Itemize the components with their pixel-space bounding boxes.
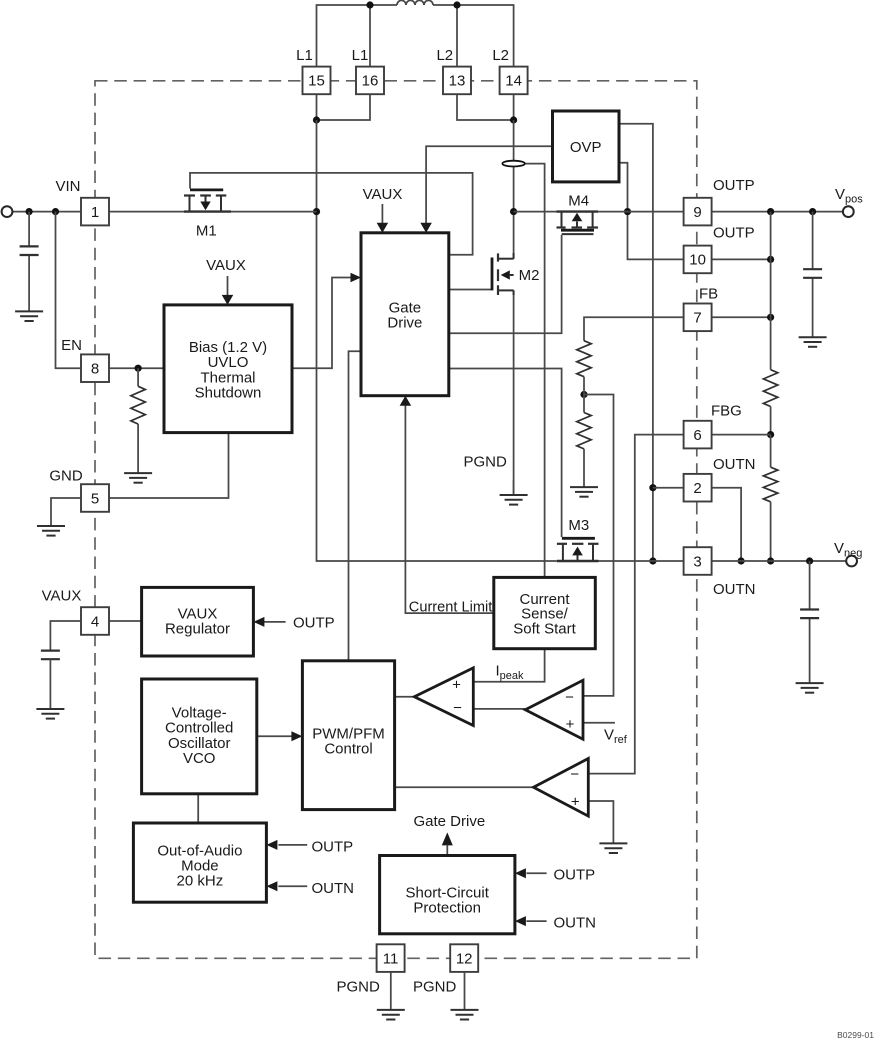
node - L2 node / OUTP row junction [510, 208, 517, 215]
transistor M4 (source/drain leads) [557, 212, 599, 228]
svg-text:Control: Control [324, 741, 372, 758]
svg-text:PGND: PGND [464, 453, 508, 470]
ground - EN resistor ground [124, 473, 152, 483]
wire - pin 16 bottom jog to L1 node [317, 94, 371, 120]
svg-text:4: 4 [91, 613, 99, 630]
wire - pin 14 bottom to L2 node [513, 94, 515, 120]
comparator U1 (current limit) [414, 668, 473, 726]
wire - comparator U3 output to PWM/PFM [395, 786, 534, 788]
svg-text:OUTN: OUTN [312, 880, 355, 897]
wire - pin 2 right jog down to OUTN row [712, 488, 742, 561]
svg-text:OUTN: OUTN [713, 456, 756, 473]
label OUTN (pin 2) [713, 456, 756, 473]
arrow - Gate Drive signal up [442, 832, 453, 845]
wire - input terminal to pin 1 (VIN) [12, 211, 81, 213]
wire - FBG to lower external resistor [770, 435, 772, 468]
wire - Vneg cap leads [809, 561, 811, 683]
svg-text:OVP: OVP [570, 139, 602, 156]
terminal - Vneg output [846, 556, 857, 567]
wire - EN resistor top lead [137, 368, 139, 386]
svg-text:Soft Start: Soft Start [513, 620, 576, 637]
wire - pin 12 to ground [464, 973, 466, 1010]
transistor M3 (source/drain leads) [557, 544, 599, 561]
node - OUTN/cap junction [806, 557, 813, 564]
wire - FB to upper external resistor [770, 317, 772, 369]
wire - OUTP stub into VAUX regulator [264, 621, 286, 623]
svg-text:Drive: Drive [387, 315, 422, 332]
svg-text:15: 15 [308, 73, 325, 90]
node - OUTN/vertical junction [767, 557, 774, 564]
capacitor - VAUX bypass cap [41, 651, 60, 660]
pin 11 (PGND) [377, 944, 405, 972]
pin 8 (EN) [81, 354, 109, 382]
pin 10 (OUTP) [684, 246, 712, 274]
current sense loop (ellipse) on L2 node [502, 161, 524, 167]
wire - L1 node vertical down to M3 row [317, 120, 557, 561]
wire - VAUX arrow stem into Gate Drive [381, 204, 383, 224]
block - PWM/PFM Control [302, 661, 394, 810]
wire - comparator U3 + input to ground [588, 801, 613, 843]
resistor - external FB-FBG resistor [763, 370, 777, 407]
node - L1 switch node junction [313, 116, 320, 123]
pin 3 (OUTN) [684, 547, 712, 575]
arrow - OUTP into Short-Circuit Protection [515, 868, 526, 878]
pin 12 (PGND) [450, 944, 478, 972]
wire - VIN branch down to EN pin 8 [56, 212, 82, 369]
capacitor - Vpos output cap [803, 269, 822, 278]
arrow - into Gate Drive left [351, 273, 362, 283]
label L1 (pin 15) [296, 47, 313, 64]
transistor M3 (channel bars) [557, 543, 599, 545]
wire - pin 15 bottom to L1 node [316, 94, 318, 120]
node - OVP vertical / pin 2 wire junction [649, 484, 656, 491]
wire - L2 node vertical (through current sense loop) to M2 drain [513, 120, 515, 259]
block - Voltage-Controlled Oscillator VCO [142, 679, 257, 794]
transistor M4 (gate plate) [561, 229, 594, 232]
pin 7 (FB) [684, 304, 712, 332]
svg-text:+: + [452, 676, 461, 693]
transistor M1 (source/drain leads) [184, 196, 231, 212]
svg-text:EN: EN [61, 337, 82, 354]
wire - internal divider to ground [583, 449, 585, 487]
arrow - VCO into PWM/PFM [291, 731, 302, 741]
terminal - VIN input [2, 206, 13, 217]
svg-text:6: 6 [693, 427, 701, 444]
wire - M4 source to L2 node [514, 211, 557, 213]
svg-text:+: + [571, 793, 580, 810]
wire - pin 16 top leg [369, 5, 371, 67]
svg-text:FBG: FBG [711, 402, 742, 419]
wire - PGND stem [513, 480, 515, 495]
svg-text:Shutdown: Shutdown [195, 385, 262, 402]
label PGND (pin 12) [413, 979, 457, 996]
wire - Gate Drive to M3 gate [449, 369, 562, 538]
resistor - internal divider lower [577, 413, 591, 449]
comparator U3 (FBG amp) [534, 759, 589, 817]
label VIN [55, 178, 80, 195]
svg-text:9: 9 [693, 204, 701, 221]
capacitor - Vneg output cap [800, 610, 819, 619]
wire - resistor to FBG row [770, 407, 772, 435]
svg-text:OUTN: OUTN [713, 581, 756, 598]
ground - internal divider ground [570, 487, 598, 497]
ground - input cap ground [15, 311, 43, 321]
wire - M1 drain to L1 node [229, 211, 317, 213]
block - Bias (1.2 V) UVLO Thermal Shutdown [164, 305, 292, 433]
svg-text:PGND: PGND [413, 979, 457, 996]
label Gate Drive (SCP arrow) [414, 813, 486, 830]
label L2 (pin 13) [436, 47, 453, 64]
svg-text:L1: L1 [296, 47, 313, 64]
svg-text:VAUX: VAUX [363, 186, 403, 203]
block - Current Sense / Soft Start [494, 577, 596, 648]
pin 1 (VIN) [81, 198, 109, 226]
node - EN resistor junction [135, 365, 142, 372]
wire - pin 6 left to comparator U3 [588, 435, 683, 774]
pin 9 (OUTP) [684, 198, 712, 226]
svg-text:16: 16 [362, 73, 379, 90]
resistor - external FBG-OUTN resistor [763, 467, 777, 502]
svg-text:1: 1 [91, 204, 99, 221]
label GND [49, 468, 83, 485]
wire - pin 2 left to OVP vertical [653, 487, 684, 489]
block - Short-Circuit Protection [380, 856, 515, 934]
wire - Vpos cap leads [812, 212, 814, 338]
svg-text:−: − [453, 700, 462, 717]
wire - Ipeak from Current Sense to comparator U1 [473, 649, 544, 682]
wire - divider midpoint to comparator U2 inverting input [583, 395, 614, 696]
wire - external vertical OUTP to FB segment [770, 212, 772, 318]
arrow - Current Limit into Gate Drive bottom [400, 396, 412, 406]
node - OVP vertical / OUTN row junction [649, 557, 656, 564]
svg-text:M4: M4 [568, 193, 589, 210]
node - pin2 branch/OUTN junction [738, 557, 745, 564]
node - FB/vertical junction [767, 314, 774, 321]
svg-text:3: 3 [693, 553, 701, 570]
wire - OUTP stub into Short-Circuit Protection [526, 872, 546, 874]
transistor M1 (gate plate) [190, 188, 223, 191]
svg-text:L2: L2 [436, 47, 453, 64]
wire - Gate Drive left lower to PWM/PFM top [349, 351, 362, 661]
resistor - EN pulldown [131, 386, 145, 424]
pin 14 (L2) [500, 67, 528, 95]
wire - pin 11 to ground [390, 973, 392, 1010]
wire - comparator U1 output to PWM/PFM [395, 696, 415, 698]
ground - PGND ground symbol [500, 495, 528, 505]
wire - VCO to PWM/PFM arrow stem [257, 735, 294, 737]
label FB (pin 7) [699, 286, 718, 303]
block - Gate Drive [361, 233, 449, 396]
ground - comparator U3 ground [599, 843, 627, 853]
arrow - OUTP into Out-of-Audio [266, 840, 277, 850]
label Vref [604, 727, 628, 747]
wire - pin 1 to M1 source [109, 211, 185, 213]
node - M1 drain junction on L1 vertical [313, 208, 320, 215]
arrow - OUTN into Short-Circuit Protection [515, 916, 526, 926]
wire - FB pin left to internal divider [584, 317, 684, 340]
svg-text:13: 13 [449, 73, 466, 90]
wire - OVP to Gate Drive top [426, 146, 552, 224]
wire - pin 5 left to analog ground [51, 498, 81, 526]
svg-text:12: 12 [456, 950, 473, 967]
wire - VAUX arrow stem into Bias block [227, 276, 229, 296]
transistor M1 (channel bars) [184, 194, 226, 196]
label VAUX (above Gate Drive) [363, 186, 403, 203]
label B0299-01 [837, 1030, 874, 1039]
wire - top loop left segment to pin 15 [317, 5, 398, 67]
svg-text:OUTP: OUTP [554, 867, 596, 884]
label OUTP (pin 10) [713, 224, 755, 241]
label M4 [568, 193, 589, 210]
transistor M1 (body arrow) [200, 196, 210, 211]
label PGND (pin 11) [337, 979, 381, 996]
label L1 (pin 16) [352, 47, 369, 64]
ground - GND pin ground symbol [37, 526, 65, 536]
arrow - OVP signal into Gate Drive top [420, 223, 432, 233]
svg-text:14: 14 [505, 73, 522, 90]
pin 6 (FBG) [684, 421, 712, 449]
node - OUTP/divider junction [767, 208, 774, 215]
transistor M2 (source lead) [498, 290, 514, 295]
svg-text:2: 2 [693, 480, 701, 497]
svg-text:−: − [570, 766, 579, 783]
svg-text:OUTP: OUTP [293, 615, 335, 632]
wire - OVP lower right to OUTP net [619, 163, 684, 260]
transistor M4 (channel bars) [557, 226, 599, 228]
transistor M2 (drain lead) [498, 253, 514, 259]
wire - Gate Drive to M4 gate [449, 235, 562, 333]
ground - VAUX cap ground [36, 709, 64, 719]
wire - M2 source down to PGND [513, 290, 515, 495]
svg-text:−: − [565, 689, 574, 706]
wire - pin 6 right to external chain [712, 434, 771, 436]
label OUTN (SCP) [554, 914, 597, 931]
block - OVP [553, 111, 620, 182]
wire - Gate Drive signal stem from Short-Circuit Protection [446, 846, 448, 856]
svg-text:5: 5 [91, 490, 99, 507]
label OUTP (VAUX reg) [293, 615, 335, 632]
pin 13 (L2) [443, 67, 471, 95]
svg-text:OUTP: OUTP [713, 177, 755, 194]
node - pin10/vertical junction [767, 256, 774, 263]
svg-text:VAUX: VAUX [42, 588, 82, 605]
wire - comparator U2 output to U1 inverting input [473, 708, 525, 710]
label VAUX (pin 4) [42, 588, 82, 605]
wire - M4 drain to pin 9 [598, 211, 684, 213]
block - VAUX Regulator [142, 587, 254, 656]
svg-text:Regulator: Regulator [165, 621, 230, 638]
label EN [61, 337, 82, 354]
wire - resistor to OUTN row [770, 502, 772, 561]
svg-text:GND: GND [49, 468, 83, 485]
wire - pin 8 to Bias block [109, 367, 164, 369]
arrow - VAUX into Gate Drive top [377, 223, 389, 233]
svg-text:Gate Drive: Gate Drive [414, 813, 486, 830]
svg-text:Current Limit: Current Limit [409, 600, 493, 616]
wire - input cap leads [28, 212, 30, 312]
svg-text:Protection: Protection [413, 900, 481, 917]
label Current Limit [409, 600, 493, 616]
transistor M2 (gate bar) [491, 258, 494, 291]
svg-text:20 kHz: 20 kHz [177, 873, 224, 890]
wire - VAUX cap to ground [49, 659, 51, 709]
svg-text:OUTN: OUTN [554, 914, 597, 931]
transistor M3 (body arrow) [572, 547, 583, 561]
svg-text:8: 8 [91, 361, 99, 378]
node - input cap junction [26, 208, 33, 215]
wire - VCO bottom to Out-of-Audio top [197, 794, 199, 823]
wire - M3 drain to pin 3 [599, 560, 684, 562]
node - junction pin16/top wire [366, 1, 373, 8]
label OUTP (SCP) [554, 867, 596, 884]
wire - pin 4 left to bypass cap [50, 621, 81, 651]
wire - Bias output to Gate Drive left (enable path) [292, 278, 351, 369]
transistor M4 (gate lead) [562, 233, 594, 235]
transistor M4 (body arrow) [572, 213, 583, 228]
wire - internal divider midpoint link [583, 377, 585, 413]
label OUTP (pin 9) [713, 177, 755, 194]
wire - pin 13 top leg [456, 5, 458, 67]
svg-text:OUTP: OUTP [312, 839, 354, 856]
svg-text:11: 11 [383, 950, 399, 967]
node - OUTP/cap junction [809, 208, 816, 215]
label OUTN (OoA) [312, 880, 355, 897]
wire - pin 4 to VAUX regulator [109, 620, 142, 622]
transistor M3 (gate plate) [562, 537, 595, 540]
node - L2 switch node junction [510, 116, 517, 123]
wire - top loop right segment to pin 14 [433, 5, 514, 67]
arrow - OUTN into Out-of-Audio [266, 881, 277, 891]
svg-text:OUTP: OUTP [713, 224, 755, 241]
svg-text:PGND: PGND [337, 979, 381, 996]
pin 15 (L1) [303, 67, 331, 95]
svg-text:7: 7 [693, 310, 701, 327]
wire - FB pin right to external chain [712, 316, 771, 318]
svg-text:B0299-01: B0299-01 [837, 1030, 874, 1039]
arrow - OUTP into VAUX regulator [253, 617, 264, 627]
label M2 [519, 267, 540, 284]
svg-text:M1: M1 [196, 222, 217, 239]
arrow - VAUX into Bias top [222, 295, 234, 305]
svg-text:M2: M2 [519, 267, 540, 284]
label M1 [196, 222, 217, 239]
wire - Gate Drive to M1 gate [190, 173, 473, 255]
wire - Gate Drive to M2 gate [449, 289, 492, 291]
node - VIN/EN branch junction [52, 208, 59, 215]
svg-text:L2: L2 [492, 47, 509, 64]
svg-text:M3: M3 [568, 517, 589, 534]
node - FBG/vertical junction [767, 431, 774, 438]
IC boundary (dashed) [95, 81, 697, 959]
wire - current sense loop to Current Sense block [525, 164, 545, 578]
svg-text:L1: L1 [352, 47, 369, 64]
ground - pin 11 ground [377, 1010, 405, 1020]
svg-text:VAUX: VAUX [206, 257, 246, 274]
wire - OUTP stub into Out-of-Audio [278, 844, 307, 846]
pin 16 (L1) [356, 67, 384, 95]
inductor L (external, between L1 and L2 pins) [397, 0, 433, 5]
svg-text:+: + [566, 716, 575, 733]
pin 2 (OUTN) [684, 474, 712, 502]
label Vpos [835, 186, 863, 206]
pin 5 (GND) [81, 484, 109, 512]
wire - Vref stub to comparator U2 [583, 722, 615, 724]
label M3 [568, 517, 589, 534]
svg-text:VCO: VCO [183, 750, 216, 767]
label FBG (pin 6) [711, 402, 742, 419]
svg-text:10: 10 [689, 252, 706, 269]
comparator U2 (FB error amp) [525, 680, 583, 739]
label OUTP (OoA) [312, 839, 354, 856]
transistor M2 (body arrow) [501, 270, 514, 279]
capacitor - input cap at VIN [20, 246, 39, 255]
ground - Vpos cap ground [799, 337, 827, 347]
wire - Current Limit from Gate Drive to Current Sense block [405, 405, 493, 613]
wire - OUTN stub into Short-Circuit Protection [526, 920, 546, 922]
wire - pin 9 to Vpos terminal [712, 211, 843, 213]
svg-text:FB: FB [699, 286, 718, 303]
node - OUTP net / OVP branch junction [624, 208, 631, 215]
ground - pin 12 ground [451, 1010, 479, 1020]
label VAUX (above Bias) [206, 257, 246, 274]
label Ipeak [496, 663, 525, 683]
wire - OVP right to OUTN sense vertical [619, 124, 653, 561]
transistor M2 (channel bars) [497, 253, 499, 295]
label L2 (pin 14) [492, 47, 509, 64]
resistor - internal divider upper [577, 341, 591, 377]
wire - pin 3 to Vneg terminal [712, 560, 847, 562]
label OUTN (pin 3) [713, 581, 756, 598]
svg-text:VIN: VIN [55, 178, 80, 195]
wire - pin 5 right up to Bias block bottom [109, 433, 229, 498]
block - Out-of-Audio Mode 20 kHz [133, 823, 266, 902]
ground - Vneg cap ground [796, 683, 824, 693]
wire - OUTN stub into Out-of-Audio [278, 885, 307, 887]
wire - pin 10 right to OUTP vertical [712, 258, 771, 260]
node - junction pin13/top wire [453, 1, 460, 8]
wire - EN resistor bottom lead [137, 424, 139, 473]
node - internal divider midpoint [580, 391, 587, 398]
wire - pin 13 bottom jog to L2 node [457, 94, 514, 120]
terminal - Vpos output [843, 206, 854, 217]
pin 4 (VAUX) [81, 607, 109, 635]
label PGND (center) [464, 453, 508, 470]
label Vneg [834, 540, 862, 560]
